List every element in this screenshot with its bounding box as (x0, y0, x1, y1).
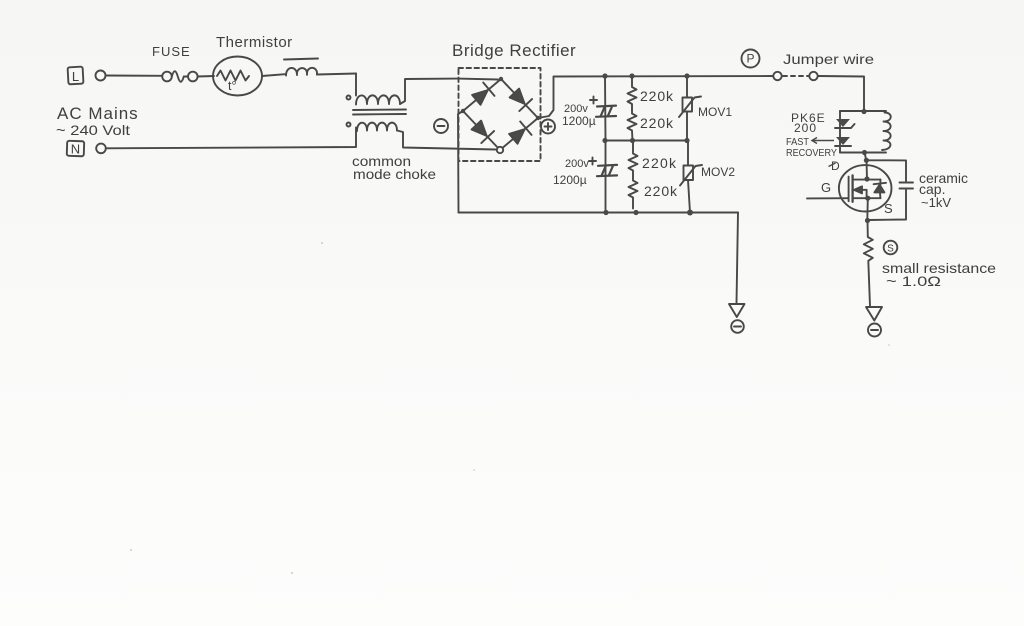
svg-text:~1kV: ~1kV (921, 195, 951, 210)
svg-text:220k: 220k (644, 183, 678, 199)
svg-text:N: N (71, 142, 80, 157)
svg-text:Jumper wire: Jumper wire (783, 51, 874, 67)
svg-text:200v: 200v (565, 158, 589, 170)
svg-text:220k: 220k (640, 88, 674, 104)
svg-text:FUSE: FUSE (152, 44, 191, 59)
svg-text:Thermistor: Thermistor (216, 34, 293, 51)
svg-text:MOV1: MOV1 (698, 105, 732, 119)
svg-text:200: 200 (794, 121, 817, 135)
svg-text:t°: t° (228, 79, 236, 93)
svg-text:1200µ: 1200µ (553, 173, 587, 187)
svg-text:D: D (831, 159, 840, 173)
svg-text:P: P (746, 52, 754, 66)
svg-text:220k: 220k (640, 115, 674, 131)
svg-text:AC Mains: AC Mains (57, 104, 139, 123)
svg-text:S: S (884, 201, 893, 216)
svg-text:S: S (887, 244, 894, 255)
svg-text:220k: 220k (642, 155, 677, 171)
svg-text:L: L (72, 69, 79, 84)
svg-text:mode choke: mode choke (353, 166, 436, 182)
svg-text:MOV2: MOV2 (701, 165, 735, 179)
svg-text:~ 240 Volt: ~ 240 Volt (56, 122, 130, 138)
svg-text:~ 1.0Ω: ~ 1.0Ω (886, 273, 941, 289)
svg-text:1200µ: 1200µ (562, 114, 596, 128)
svg-text:G: G (821, 180, 831, 195)
svg-text:Bridge Rectifier: Bridge Rectifier (452, 41, 576, 60)
svg-text:RECOVERY: RECOVERY (786, 147, 837, 159)
